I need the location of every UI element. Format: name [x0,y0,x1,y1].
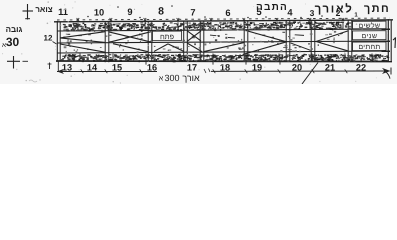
svg-text:11: 11 [58,7,68,17]
bottom bay numbers 13..22 [62,63,366,73]
svg-text:צואר: צואר [35,5,52,14]
deck line 2 (mid) [57,41,390,43]
hull bottom chord line [56,60,392,63]
stray marks right of length label [204,69,210,74]
bay number 12 at left wall [44,34,57,45]
svg-text:לאורך: לאורך [315,2,354,15]
leader line to post (bottom right) [302,63,318,85]
dashed guide line above top chord [57,18,390,20]
frame post 7 (double line) at x=313 [311,21,315,62]
svg-text:אורך: אורך [182,73,200,83]
storey cell lower (bottom deck) [353,42,387,51]
svg-text:8: 8 [158,5,164,17]
svg-text:שנים: שנים [362,33,378,40]
frame post 4 (double line) at x=202 [200,21,204,62]
svg-text:גובה: גובה [6,25,23,34]
svg-text:4: 4 [287,8,293,18]
hull structure group (slight scan skew, rises to the right) [54,18,393,63]
frame post 2 (double line) at x=150 [148,21,152,62]
top bay numbers 11..1 [58,5,358,18]
frame post 3 (double line) at x=185.5 [184,21,188,62]
surveyor cross top left [23,4,34,20]
svg-text:10: 10 [94,8,104,18]
deck line 3 [57,51,390,53]
storey cell upper (third deck) [353,21,387,30]
dimension arrowhead right [382,68,391,79]
bay 4 dashes and lower diagonal [204,35,245,52]
upper deck plank joints [78,21,343,30]
bay ticks on dimension line [81,69,348,73]
svg-text:12: 12 [44,34,53,43]
bay 3 lower lambda brace [154,44,184,52]
svg-text:2: 2 [336,8,341,18]
short ticks below bottom chord [146,62,280,65]
bay 5 chevron brace (apex right) [243,31,287,55]
bay 3b X brace in second deck [188,31,202,41]
svg-text:7: 7 [190,7,195,17]
left end wall (double line) [57,21,60,62]
hatch cell box [153,31,182,41]
dimension arrowhead left [57,69,64,74]
stray ink dots near numbers [87,5,323,18]
light speckle in middle bays [61,31,343,54]
svg-text:חתך: חתך [364,3,390,15]
faint pencil marks bottom left [29,79,41,82]
bottom hull plank stipple band [61,54,389,63]
bay 1 chevron brace (apex at left wall) [60,32,105,53]
bay 3b lower deck diagonal [188,43,203,52]
bottom band plank joints [80,54,372,61]
second surveyor cross lower left [7,56,28,69]
frame post 5 (double line) at x=246 [244,21,248,62]
frame post 8 (double line) at x=350 [348,20,352,61]
dimension line right segment [211,70,385,72]
svg-text:פתח: פתח [160,32,174,41]
svg-text:17: 17 [187,63,197,73]
svg-text:1: 1 [354,12,358,19]
svg-text:9: 9 [127,7,132,17]
storey cell middle (second deck) [353,31,387,40]
svg-text:3: 3 [310,8,315,18]
svg-text:א: א [2,42,6,49]
dimension line left segment [57,71,157,73]
svg-text:6: 6 [225,8,230,18]
svg-text:30: 30 [6,35,20,49]
small tick mark left of dimension arrow [48,63,52,70]
tick marks above top chord [77,18,345,21]
svg-text:תחתים: תחתים [358,44,380,51]
right end wall (double line) [388,19,391,62]
small figure 1 outside right wall [393,38,396,49]
hull top chord line [54,20,393,22]
upper deck plank stipple band [63,21,351,32]
svg-text:שלשים: שלשים [359,22,381,30]
svg-text:5: 5 [256,7,262,18]
bay 6 lower diagonal and dash [291,35,311,51]
frame post 6 (double line) at x=288 [286,21,290,62]
bay 7 chevron brace (apex left) [316,31,348,51]
frame post 1 (double line) at x=107 [105,22,109,63]
bay 2 lower deck diagonal [113,43,148,51]
bay 2 X brace in second deck [109,32,151,43]
svg-text:א: א [159,76,164,83]
svg-text:300: 300 [164,73,179,83]
wall-to-line tick left [57,62,59,72]
deck line 1 [57,29,390,31]
scan noise speckle [2,1,388,83]
